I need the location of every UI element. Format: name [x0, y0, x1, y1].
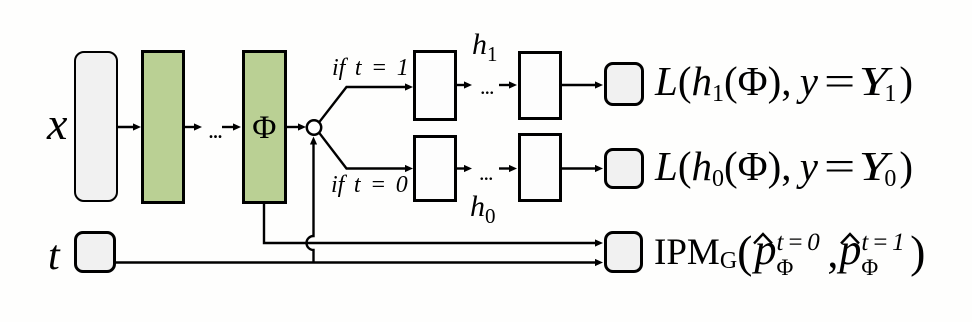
label L(h1(Phi), y = Y1) [655, 57, 913, 105]
wire: split node down to h0 branch (if t = 0) [319, 132, 407, 168]
L1 node (rounded grey) [604, 62, 644, 106]
h1 head box 1 [413, 50, 457, 121]
t input box [74, 231, 117, 274]
wire: input box to green layer 1 [118, 126, 136, 128]
label L(h0(Phi), y = Y0) [655, 142, 913, 190]
representation layer Phi (green) [242, 50, 288, 204]
h1 head box 2 [518, 51, 562, 120]
h0 head box 2 [518, 133, 562, 202]
hat over first p in IPM formula [754, 234, 772, 244]
label IPM_G(p_Phi^t=0, p_Phi^t=1) [654, 224, 925, 278]
label if t = 0 [331, 172, 408, 199]
wire: dots to h0 box2 [499, 167, 512, 169]
wire: Phi layer to split node [287, 126, 300, 128]
wire: split node up to h1 branch (if t = 1) [319, 87, 407, 123]
dots h0 branch [479, 160, 493, 186]
wire: dots to Phi layer [222, 126, 236, 128]
label t [48, 232, 60, 280]
hat over second p in IPM formula [841, 234, 859, 244]
wire: h0 box1 to dots [457, 167, 467, 169]
label if t = 1 [332, 55, 409, 82]
wire: t line up to split node, hopping over Phi wire [307, 141, 314, 263]
wire: green layer 1 to dots [185, 126, 197, 128]
wire: h1 box1 to dots [457, 84, 467, 86]
IPM node (rounded grey) [604, 231, 643, 273]
h0 head box 1 [413, 135, 457, 202]
dots h1 branch [480, 74, 494, 100]
label h0 [470, 190, 496, 229]
hidden layer 1 (green) [141, 50, 185, 204]
dots between hidden layers [208, 118, 222, 145]
label x [47, 97, 67, 150]
input layer box [74, 51, 118, 202]
split node circle [307, 120, 321, 134]
wire: h1 box2 to L1 node [562, 84, 597, 86]
wire: dots to h1 box2 [499, 84, 512, 86]
wire: Phi layer bottom down and right to IPM node [264, 203, 597, 243]
label h1 [472, 28, 498, 67]
L0 node (rounded grey) [604, 148, 644, 189]
wire: t box right to IPM node [115, 261, 597, 263]
wire: h0 box2 to L0 node [562, 167, 597, 169]
